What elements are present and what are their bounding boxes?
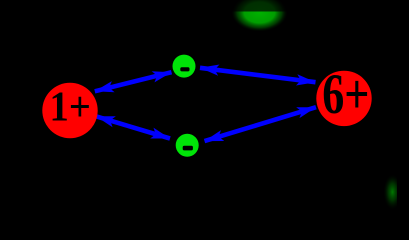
node ion 6+ xyxy=(316,71,371,126)
wire arrow B: green-top to red2 xyxy=(200,68,316,82)
node ion 1+ xyxy=(42,83,97,138)
svg-text:1+: 1+ xyxy=(50,85,91,131)
wire arrow C: red1 to green-bottom xyxy=(96,116,170,138)
green glow blob top xyxy=(232,0,288,32)
wire arrow D: green-bottom to red2 xyxy=(205,107,317,141)
node electron bottom xyxy=(176,134,199,157)
wire arrow A: red1 to green-top xyxy=(95,72,172,91)
node electron top xyxy=(173,55,196,78)
svg-text:6+: 6+ xyxy=(322,63,369,126)
green glow strip bottom right xyxy=(384,175,402,210)
